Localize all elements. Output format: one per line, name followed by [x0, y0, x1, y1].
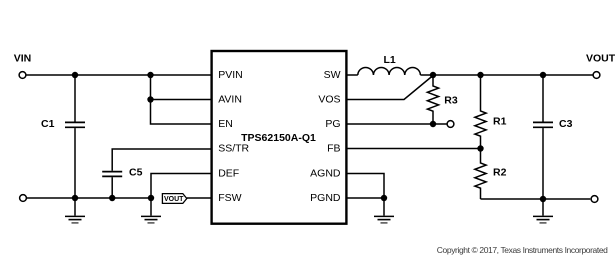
svg-text:SW: SW	[324, 69, 341, 81]
svg-text:SS/TR: SS/TR	[218, 143, 249, 155]
svg-text:L1: L1	[384, 54, 396, 66]
svg-text:C1: C1	[41, 118, 55, 130]
svg-text:R3: R3	[444, 94, 458, 106]
svg-text:AGND: AGND	[310, 168, 341, 180]
svg-text:AVIN: AVIN	[218, 94, 242, 106]
svg-text:Copyright © 2017, Texas Instru: Copyright © 2017, Texas Instruments Inco…	[437, 245, 608, 255]
svg-text:DEF: DEF	[218, 168, 239, 180]
svg-text:PG: PG	[325, 118, 340, 130]
svg-text:VOUT: VOUT	[164, 196, 184, 203]
svg-text:R1: R1	[493, 116, 507, 128]
svg-text:PVIN: PVIN	[218, 69, 243, 81]
svg-text:FSW: FSW	[218, 192, 241, 204]
svg-text:VOS: VOS	[318, 94, 340, 106]
svg-text:VIN: VIN	[14, 53, 32, 65]
svg-text:R2: R2	[493, 167, 507, 179]
svg-text:VOUT: VOUT	[586, 53, 615, 65]
svg-text:C3: C3	[559, 118, 573, 130]
svg-text:C5: C5	[129, 167, 143, 179]
svg-text:TPS62150A-Q1: TPS62150A-Q1	[241, 132, 316, 144]
svg-text:EN: EN	[218, 118, 233, 130]
svg-text:PGND: PGND	[310, 192, 341, 204]
svg-text:FB: FB	[327, 143, 340, 155]
